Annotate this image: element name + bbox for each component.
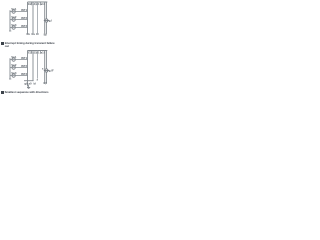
ground tick (bottom fig) [9,78,11,80]
wire box left edge (bottom fig) [27,51,29,87]
wire vertical B (top fig) [37,2,39,34]
wire battery branch (bottom fig) [45,51,47,84]
source V6 [11,71,17,77]
ground tick (top fig) [9,30,11,32]
svg-text:a0: a0 [29,81,33,85]
svg-text:Vp1: Vp1 [11,7,17,11]
caption figure 1 text line 2 [5,45,9,48]
svg-text:INT1: INT1 [21,56,28,60]
svg-text:a: a [42,68,44,71]
battery B1 [44,19,49,22]
wire ground rail (bottom fig) [24,80,34,82]
svg-text:ba: ba [32,32,36,36]
battery B2 [44,69,49,72]
pin labels top row (top fig) [28,2,45,6]
svg-text:a1l: a1l [41,2,45,6]
source V3 [11,23,17,29]
pin cell dividers (bottom fig) [32,51,41,54]
svg-text:Vp2: Vp2 [11,63,17,67]
svg-text:bb: bb [27,32,31,36]
wire vertical B (bottom fig) [37,51,39,79]
svg-text:Vp3: Vp3 [11,23,17,27]
svg-text:INT3: INT3 [21,24,28,28]
svg-text:bl: bl [34,81,37,85]
source V5 [11,63,17,69]
caption figure 2 text [5,91,49,94]
wire vertical A (bottom fig) [32,51,34,81]
wire ground stem (bottom fig) [28,85,30,88]
pin labels bottom row (top fig) [27,32,48,36]
svg-text:g.lF: g.lF [49,69,54,73]
svg-text:INT3: INT3 [21,72,28,76]
svg-text:a1: a1 [36,2,40,6]
caption figure 1 icon [1,42,4,45]
svg-text:INT2: INT2 [21,16,28,20]
ground (bottom fig) [27,86,30,89]
wire row1 (bottom fig) [10,59,28,61]
svg-text:g.l: g.l [49,19,52,23]
svg-text:a1: a1 [36,51,40,55]
caption figure 2 icon [1,91,4,94]
wire vertical A (top fig) [32,2,34,34]
svg-text:a: a [37,78,39,81]
wire row2 (top fig) [10,19,28,21]
pin labels bottom row (bottom fig) [24,81,47,86]
wire battery branch (top fig) [45,2,47,34]
caption figure 1 text line 1 [5,42,55,45]
wire box right edge (bottom fig) [44,51,46,84]
wire row1 (top fig) [10,11,28,13]
wire row3 (top fig) [10,27,28,29]
wire left bus (top fig) [9,10,11,30]
wire box right edge (top fig) [44,2,46,34]
wire top rail (top fig) [28,1,48,3]
svg-text:b|l: b|l [44,81,47,85]
svg-text:Vp2: Vp2 [11,15,17,19]
source V4 [11,55,17,61]
svg-text:INT1: INT1 [21,8,28,12]
svg-text:bl: bl [36,32,39,36]
source V1 [11,7,17,13]
svg-text:Vp1: Vp1 [11,55,17,59]
wire row2 (bottom fig) [10,67,28,69]
pin labels top row (bottom fig) [28,51,45,55]
svg-text:b|l: b|l [44,32,47,36]
source V2 [11,15,17,21]
svg-text:a1l: a1l [41,51,45,55]
svg-text:Vp3: Vp3 [11,71,17,75]
wire top rail (bottom fig) [28,50,48,52]
wire row3 (bottom fig) [10,75,28,77]
pin cell dividers (top fig) [32,2,41,5]
wire box left edge (top fig) [27,2,29,34]
svg-text:INT2: INT2 [21,64,28,68]
wire left bus (bottom fig) [9,58,11,78]
